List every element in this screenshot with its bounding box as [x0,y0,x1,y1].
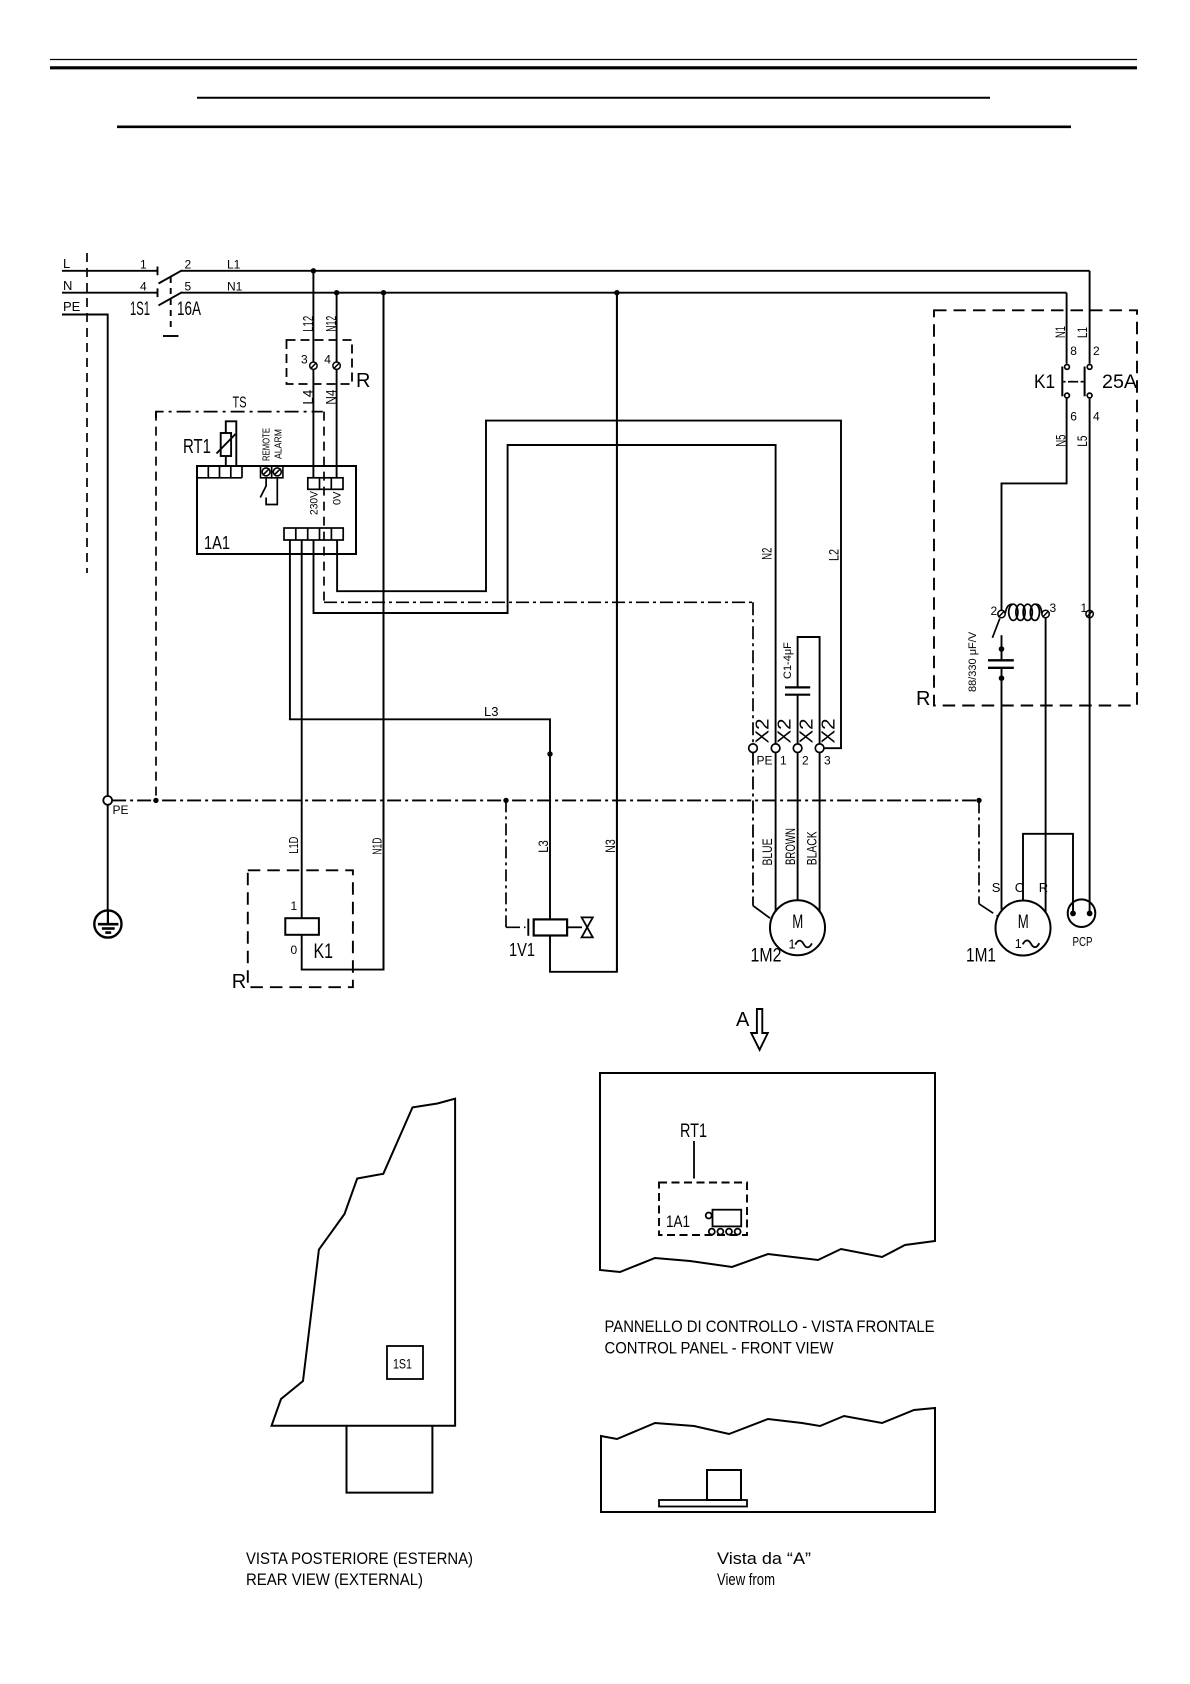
svg-text:X2: X2 [774,719,794,744]
panel RT1 leader line [693,1141,695,1179]
svg-text:PE: PE [757,754,773,768]
svg-text:1M1: 1M1 [966,946,996,967]
junction N1 to N12 [334,290,339,295]
wire C jumper to PCP [1023,834,1073,914]
wire N1D from N1 [383,293,385,970]
svg-text:1: 1 [1081,601,1088,615]
svg-text:N5: N5 [1052,434,1068,446]
start relay terminal 3 screw [1042,610,1049,617]
enclosure TS right drop to X2 dash-dot [752,602,754,744]
wire N1 [181,292,1067,294]
view A arrow [751,1009,768,1050]
valve 1V1 terminal tick [527,919,529,936]
supply boundary dashed line [86,253,88,573]
svg-text:1: 1 [291,899,298,913]
start relay coil [1005,604,1042,620]
wire PE to ground [107,805,109,911]
svg-text:N12: N12 [323,316,340,332]
svg-text:N3: N3 [602,839,618,853]
svg-text:K1: K1 [314,940,334,963]
junction N1 to N1D [381,290,386,295]
wire PE to 1M1 dash-dot [979,800,998,916]
svg-text:M: M [792,911,803,933]
wire 1V1 to N3 [550,293,617,972]
terminal X2:3 circle [815,744,824,753]
junction 1M1 earth branch [976,798,981,803]
panel front view outline [600,1073,935,1272]
svg-text:1S1: 1S1 [393,1356,412,1372]
wire N12 [336,293,338,362]
svg-text:N1: N1 [227,279,243,293]
svg-text:1: 1 [789,937,796,951]
terminal X2:PE circle [749,744,758,753]
relay K1 coil [285,918,319,935]
protector PCP terminal dots [1070,911,1076,917]
svg-text:BLUE: BLUE [759,839,775,866]
svg-text:L1D: L1D [286,837,301,854]
header rule middle [197,97,990,99]
wire PE to 1M2 dash-dot [753,753,770,919]
wire PE bus dash-dot [112,799,979,801]
svg-text:PANNELLO DI CONTROLLO - VISTA: PANNELLO DI CONTROLLO - VISTA FRONTALE [605,1317,935,1336]
junction N1 to N3 [614,290,619,295]
svg-text:N1: N1 [1052,326,1068,338]
svg-text:3: 3 [1050,601,1057,615]
1A1 supply terminal block 230V/0V [308,478,343,490]
svg-text:ALARM: ALARM [273,429,285,459]
svg-text:2: 2 [1093,344,1100,358]
remote box R dashed [287,340,353,384]
svg-text:1: 1 [1015,937,1022,951]
svg-text:L4: L4 [300,390,317,405]
svg-text:L5: L5 [1074,435,1090,446]
wire L4 [312,369,314,478]
svg-text:S: S [992,880,1001,895]
svg-text:1M2: 1M2 [751,946,782,967]
svg-text:L2: L2 [825,549,841,561]
valve 1V1 solenoid [534,919,567,935]
svg-text:R: R [356,370,370,392]
view A panel base plate [659,1500,747,1507]
svg-text:N1D: N1D [369,838,384,855]
valve 1V1 body bowtie [567,917,593,937]
svg-text:REAR VIEW (EXTERNAL): REAR VIEW (EXTERNAL) [246,1571,423,1589]
wire L12 [312,271,314,362]
view from A outline [601,1408,935,1512]
switch 1S1 pole N (contacts 4-5) [158,288,183,305]
svg-text:1: 1 [140,258,147,272]
svg-text:1V1: 1V1 [509,940,535,960]
enclosure TS bottom boundary dash-dot [324,601,753,603]
remote alarm switch [260,478,277,505]
svg-text:4: 4 [140,279,147,293]
thermistor RT1 [217,421,237,466]
rear view outline [272,1099,456,1426]
svg-text:M: M [1018,911,1029,933]
header rule thick top [50,66,1137,69]
svg-text:2: 2 [991,604,998,618]
svg-text:C1-4μF: C1-4μF [782,642,794,679]
svg-text:N4: N4 [323,390,340,405]
motor 1M1 circle [996,901,1051,956]
rear view pedestal [347,1426,433,1493]
start relay terminal 2 screw [998,610,1005,617]
svg-text:TS: TS [233,395,247,412]
terminal 4 screw [333,362,340,369]
svg-text:BLACK: BLACK [804,831,820,865]
1A1 output terminal strip [284,528,343,540]
motor 1M2 1~ label [789,937,812,951]
svg-text:RT1: RT1 [680,1121,707,1142]
svg-text:PCP: PCP [1073,934,1093,949]
wire BLUE X2:1 to 1M2 [775,753,777,913]
svg-text:N2: N2 [758,548,774,560]
svg-text:8: 8 [1070,344,1077,358]
wire L5 into PCP [1089,610,1091,913]
svg-text:CONTROL PANEL - FRONT VIEW: CONTROL PANEL - FRONT VIEW [605,1339,834,1358]
enclosure TS top boundary dash-dot [156,412,323,418]
svg-text:R: R [916,688,930,710]
wire L2 from 1A1 to X2:3 [337,421,841,749]
wire N supply [62,292,157,294]
start relay switch blade [992,619,999,638]
svg-text:1A1: 1A1 [204,533,230,553]
wire N5 [1002,398,1067,610]
wire L supply [62,270,157,272]
svg-text:3: 3 [301,353,308,367]
wire N1 drop to contact [1066,293,1068,364]
svg-text:C: C [1015,880,1024,895]
header rule thin top [50,59,1137,61]
svg-text:0: 0 [291,943,298,957]
svg-text:2: 2 [185,258,192,272]
svg-text:25A: 25A [1102,372,1137,393]
motor 1M2 circle [770,900,825,955]
enclosure TS inner boundary dashed vertical [323,412,325,603]
contactor K1 contacts [1062,365,1092,398]
node PE terminal circle [103,796,112,805]
remote alarm screw terminals [261,466,283,478]
svg-text:Vista da “A”: Vista da “A” [717,1550,811,1568]
wire BLACK X2:3 to 1M2 [819,753,821,913]
terminal 3 screw [310,362,317,369]
svg-text:N: N [63,278,72,293]
svg-text:PE: PE [63,299,81,314]
wire N2 from 1A1 to X2:1 [314,445,776,744]
view A panel box [707,1470,741,1500]
svg-text:L: L [63,256,70,271]
junction TS boundary on PE [153,798,158,803]
control board 1A1 box [197,466,356,554]
wire K1 coil to N1D [302,293,384,970]
capacitor 88/330 [988,635,1014,910]
wire L1 drop to contact [1089,271,1091,364]
svg-text:1A1: 1A1 [666,1212,690,1231]
svg-text:REMOTE: REMOTE [261,428,273,461]
switch 1S1 mechanical link [163,277,179,336]
svg-text:5: 5 [185,279,192,293]
svg-text:4: 4 [1093,409,1100,423]
wire L5 [1089,398,1091,610]
wire L1D from 1A1 to K1 coil [301,540,303,918]
svg-text:0V: 0V [332,491,344,505]
svg-text:RT1: RT1 [183,436,211,458]
svg-text:1: 1 [780,754,787,768]
wire PE entry [62,315,108,796]
header rule lower [117,126,1071,129]
panel 1A1 dashed box [659,1183,747,1236]
svg-text:K1: K1 [1034,372,1055,393]
ground protective earth symbol [94,910,121,937]
svg-text:A: A [736,1009,750,1031]
capacitor 88/330 junction dots [999,646,1005,652]
svg-text:VISTA POSTERIORE (ESTERNA): VISTA POSTERIORE (ESTERNA) [246,1550,473,1568]
svg-text:2: 2 [802,754,809,768]
svg-text:88/330 μF/V: 88/330 μF/V [967,631,979,692]
svg-text:R: R [1039,880,1048,895]
svg-text:R: R [232,971,246,993]
svg-text:PE: PE [113,803,129,817]
terminal X2:2 circle [793,744,802,753]
wire L1 [181,270,1090,272]
svg-text:View from: View from [717,1571,775,1589]
svg-text:L1: L1 [227,258,241,272]
junction 1V1 earth branch [503,798,508,803]
wire relay 3 to motor R [1045,618,1047,912]
valve 1V1 earth branch dash-dot [505,800,507,927]
compressor unit dashed box R [934,310,1137,705]
capacitor C1 branch [785,637,820,744]
svg-text:L12: L12 [300,316,317,332]
svg-text:230V: 230V [309,490,321,515]
svg-text:3: 3 [824,754,831,768]
panel display board [706,1210,742,1235]
1A1 sensor terminal strip [197,466,242,478]
start relay terminal 1 screw [1086,610,1093,617]
wire L3 from 1A1 [290,540,550,919]
svg-text:X2: X2 [752,719,772,744]
wire N3 from N1 [616,293,618,972]
svg-text:16A: 16A [177,299,201,320]
svg-text:X2: X2 [796,719,816,744]
svg-text:L3: L3 [484,704,498,719]
terminal X2:1 circle [771,744,780,753]
protector PCP circle [1068,899,1096,927]
wire BROWN X2:2 to 1M2 [797,753,799,901]
junction on L3 drop [547,751,552,756]
svg-text:L1: L1 [1074,327,1090,338]
wire N4 [336,369,338,478]
svg-text:6: 6 [1070,409,1077,423]
svg-text:X2: X2 [818,719,838,744]
relay K1 coil dashed box R [248,870,353,987]
rear view 1S1 box [387,1346,423,1379]
svg-text:4: 4 [324,353,331,367]
svg-text:BROWN: BROWN [782,828,798,865]
svg-text:1S1: 1S1 [130,299,150,320]
junction L1 to L12 [311,268,316,273]
switch 1S1 pole L (contacts 1-2) [158,267,183,284]
enclosure TS left boundary dashed [155,412,157,800]
motor 1M1 1~ label [1015,937,1040,951]
svg-text:L3: L3 [535,840,551,853]
